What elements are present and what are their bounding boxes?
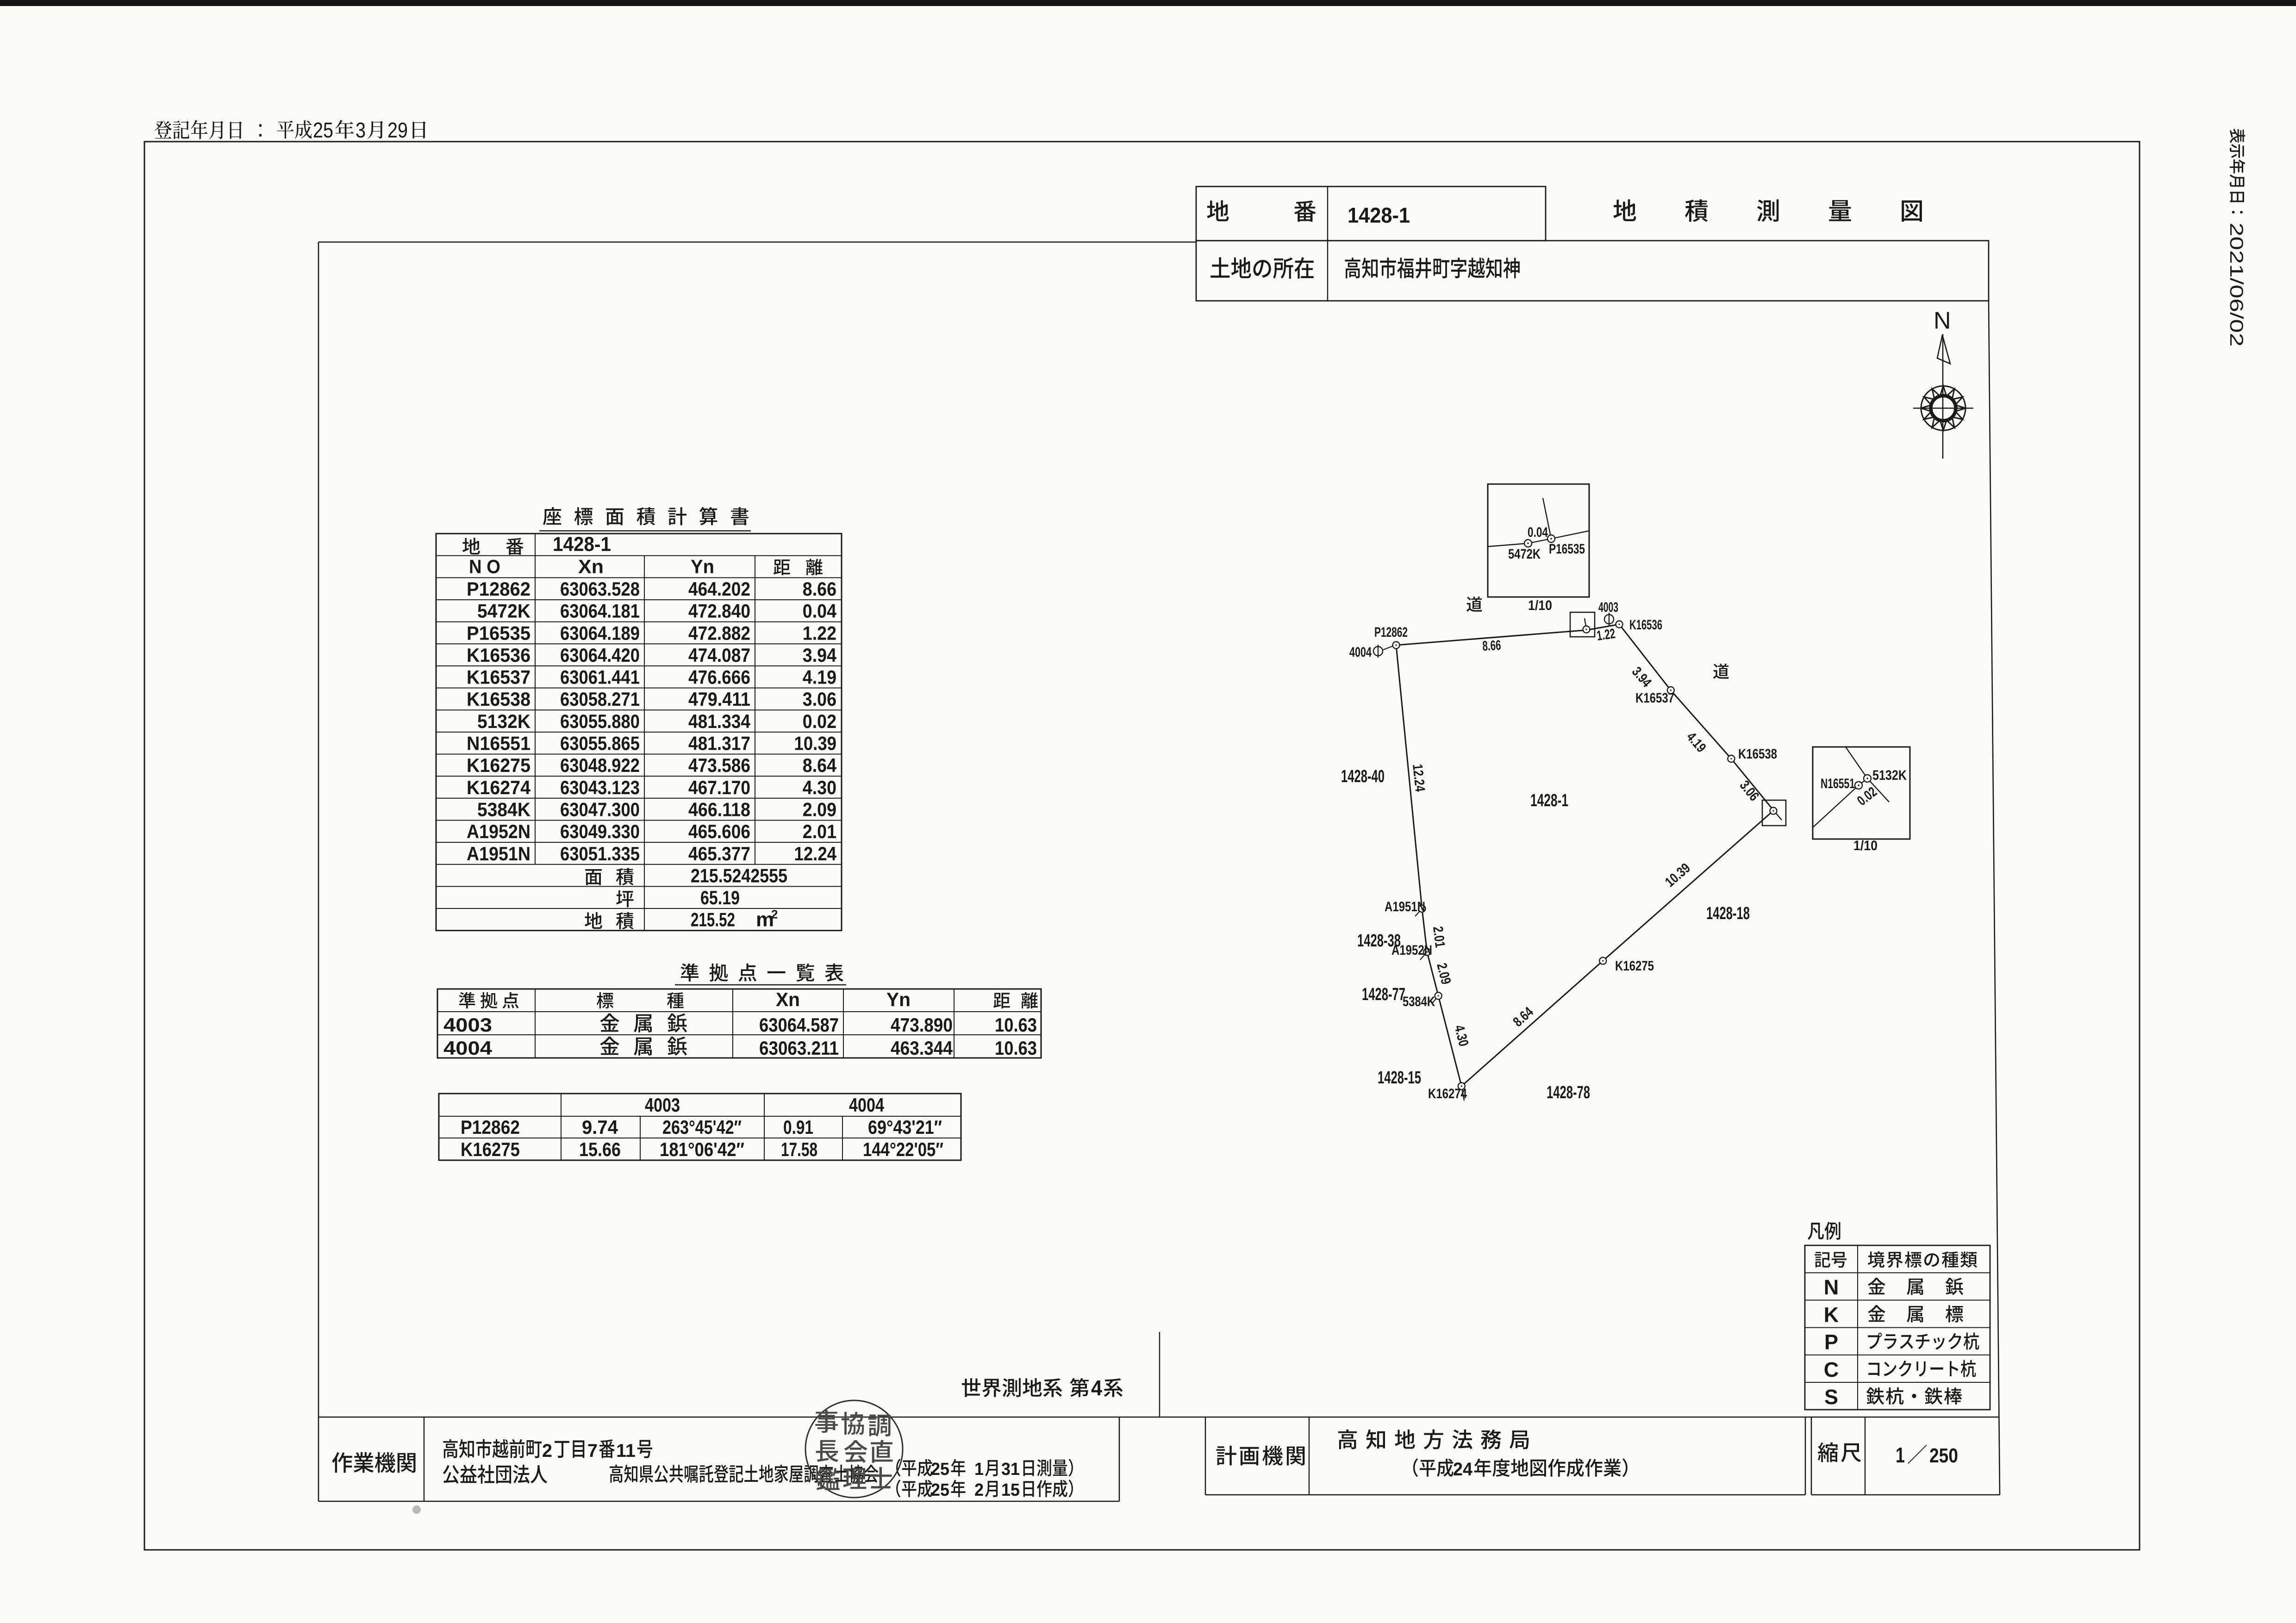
svg-text:1428-18: 1428-18 xyxy=(1706,904,1750,923)
svg-text:8.64: 8.64 xyxy=(803,754,837,776)
高知地方法務局 xyxy=(1338,1430,1529,1449)
svg-text:P12862: P12862 xyxy=(467,578,530,600)
label 縮尺 xyxy=(1818,1443,1861,1462)
svg-text:1428-1: 1428-1 xyxy=(1530,791,1568,810)
svg-text:Xn: Xn xyxy=(578,555,604,577)
svg-text:K16274: K16274 xyxy=(1428,1086,1467,1101)
svg-text:63063.211: 63063.211 xyxy=(759,1037,839,1059)
parcel 1428-1 boundary polygon xyxy=(1396,624,1774,1086)
table1 footer 坪 xyxy=(616,890,633,908)
table1 row 地番 1428-1 xyxy=(462,538,480,554)
svg-text:2.01: 2.01 xyxy=(803,821,836,842)
stamp circle xyxy=(805,1400,903,1498)
detail inset 2 (N16551 / 5132K) xyxy=(1813,747,1910,839)
main title 地積測量図 xyxy=(1613,199,1922,222)
svg-text:1428-15: 1428-15 xyxy=(1378,1068,1421,1088)
legend table xyxy=(1805,1245,1990,1410)
svg-text:N16551: N16551 xyxy=(1821,776,1855,791)
tick at 5384K xyxy=(1432,996,1438,1004)
marker square around 5472K/P16535 xyxy=(1570,612,1595,637)
svg-text:4003: 4003 xyxy=(1598,600,1618,615)
svg-text:250: 250 xyxy=(1929,1444,1958,1467)
svg-text:P: P xyxy=(1824,1331,1838,1354)
bottom-right box 計画機関 xyxy=(1205,1417,1206,1495)
compass rose inner ring xyxy=(1931,396,1956,421)
table1 footer 地積 xyxy=(585,912,602,929)
svg-text:S: S xyxy=(1824,1385,1838,1409)
svg-text:1428-1: 1428-1 xyxy=(553,533,611,556)
svg-text:1/10: 1/10 xyxy=(1528,598,1552,613)
tick at cluster square 1 xyxy=(1585,618,1586,629)
table2 headers xyxy=(459,992,518,1008)
svg-text:7: 7 xyxy=(587,1441,598,1461)
header registration date label 登記年月日 xyxy=(155,120,242,139)
svg-text:474.087: 474.087 xyxy=(688,644,750,666)
svg-text:464.202: 464.202 xyxy=(688,578,750,600)
svg-text:4004: 4004 xyxy=(1349,645,1372,660)
bottom-left box 作業機関 xyxy=(318,1417,319,1501)
svg-text:15: 15 xyxy=(1001,1480,1020,1500)
svg-text:63047.300: 63047.300 xyxy=(560,798,640,820)
svg-text:N: N xyxy=(1934,307,1951,334)
svg-text:K16275: K16275 xyxy=(467,754,530,776)
svg-text:12.24: 12.24 xyxy=(1410,763,1428,792)
stamp kanji 直 xyxy=(871,1440,892,1463)
label 作業機関 xyxy=(332,1452,415,1473)
svg-text:15.66: 15.66 xyxy=(579,1138,621,1160)
svg-text:3.06: 3.06 xyxy=(803,688,836,710)
svg-text:63064.587: 63064.587 xyxy=(759,1014,839,1036)
stamp kanji 調 xyxy=(868,1415,891,1437)
svg-text:3: 3 xyxy=(356,118,366,142)
svg-text:C: C xyxy=(1824,1358,1839,1381)
outer page border xyxy=(144,142,2140,1550)
title block 所在 row xyxy=(1196,241,1989,301)
label 番 xyxy=(1294,200,1316,222)
svg-text:9.74: 9.74 xyxy=(582,1116,618,1138)
address line1 xyxy=(443,1439,542,1458)
（平成24年度地図作成作業） xyxy=(1413,1458,1454,1477)
svg-text:473.586: 473.586 xyxy=(688,754,750,776)
road label 道 right xyxy=(1713,664,1729,679)
compass rose 12-point star xyxy=(1921,386,1965,430)
svg-text:0.91: 0.91 xyxy=(783,1116,813,1138)
svg-text:2.01: 2.01 xyxy=(1430,926,1447,949)
svg-text:63049.330: 63049.330 xyxy=(560,821,640,842)
svg-text:4.30: 4.30 xyxy=(803,777,836,798)
svg-text:4004: 4004 xyxy=(443,1037,493,1059)
svg-text:63064.181: 63064.181 xyxy=(560,600,640,622)
boundary point circles xyxy=(1393,642,1400,649)
svg-text:5384K: 5384K xyxy=(1403,994,1435,1009)
svg-text:25: 25 xyxy=(931,1460,949,1479)
svg-text:K16536: K16536 xyxy=(467,644,530,666)
vertical date right margin 表示年月日：2021/06/02 xyxy=(2226,129,2246,347)
svg-text:K16275: K16275 xyxy=(461,1138,520,1160)
svg-text:2021/06/02: 2021/06/02 xyxy=(2226,223,2246,347)
svg-text:69°43'21″: 69°43'21″ xyxy=(868,1116,942,1138)
svg-text:63063.528: 63063.528 xyxy=(560,578,640,600)
svg-text:463.344: 463.344 xyxy=(891,1037,953,1059)
svg-text:5132K: 5132K xyxy=(477,710,530,732)
svg-text:P16535: P16535 xyxy=(1549,541,1585,557)
reference station 4004 symbol xyxy=(1373,647,1383,656)
svg-text:5472K: 5472K xyxy=(477,600,530,622)
svg-text:8.66: 8.66 xyxy=(1482,638,1502,654)
svg-text:P16535: P16535 xyxy=(467,622,530,644)
faint dot artifact xyxy=(412,1505,421,1514)
svg-text:476.666: 476.666 xyxy=(688,666,750,688)
svg-text:25: 25 xyxy=(313,118,333,142)
svg-text:1428-40: 1428-40 xyxy=(1341,767,1385,786)
svg-text:466.118: 466.118 xyxy=(688,798,750,820)
svg-text:K16536: K16536 xyxy=(1629,617,1662,633)
stamp kanji 士 xyxy=(870,1467,892,1488)
svg-text:10.39: 10.39 xyxy=(794,733,837,754)
stamp kanji 理 xyxy=(843,1468,867,1489)
svg-text:63048.922: 63048.922 xyxy=(560,754,640,776)
svg-text:2: 2 xyxy=(974,1480,984,1500)
title block 地番 row xyxy=(1196,187,1546,241)
svg-text:465.377: 465.377 xyxy=(688,843,750,864)
location value 高知市福井町字越知神 xyxy=(1345,258,1519,279)
table3 angle/distance table grid xyxy=(439,1094,961,1160)
svg-text:467.170: 467.170 xyxy=(688,777,750,798)
svg-text:2: 2 xyxy=(771,908,778,921)
svg-text:K16538: K16538 xyxy=(1738,746,1777,762)
svg-text:12.24: 12.24 xyxy=(794,843,837,864)
table1 coordinate area table grid xyxy=(436,534,842,931)
svg-text:63064.420: 63064.420 xyxy=(560,644,640,666)
tick at A1952N xyxy=(1420,952,1427,960)
svg-text:10.63: 10.63 xyxy=(995,1037,1037,1059)
svg-text:11: 11 xyxy=(616,1441,636,1461)
north arrow shaft xyxy=(1942,334,1944,459)
legend title 凡例 xyxy=(1808,1222,1840,1240)
svg-text:31: 31 xyxy=(1001,1460,1020,1479)
svg-text:K16537: K16537 xyxy=(1635,690,1674,706)
svg-text:8.66: 8.66 xyxy=(803,578,836,600)
cluster point in square 1 xyxy=(1583,626,1590,633)
marker square around 5132K/N16551 xyxy=(1762,800,1786,826)
stamp kanji 鑑 xyxy=(816,1468,840,1490)
世界測地系 第4系 xyxy=(962,1378,1062,1397)
svg-text:2.09: 2.09 xyxy=(803,798,836,820)
tick at cluster square 2 xyxy=(1774,810,1782,820)
svg-text:63058.271: 63058.271 xyxy=(560,688,640,710)
survey date line2 xyxy=(896,1480,932,1497)
svg-text:1428-1: 1428-1 xyxy=(1348,203,1410,227)
svg-text:4004: 4004 xyxy=(849,1094,885,1116)
svg-text:Yn: Yn xyxy=(886,989,911,1010)
inner drawing frame xyxy=(318,242,1196,243)
svg-text:A1952N: A1952N xyxy=(467,821,530,842)
tick at K16274 xyxy=(1461,1086,1464,1101)
svg-text:481.317: 481.317 xyxy=(688,733,750,754)
svg-text:481.334: 481.334 xyxy=(688,710,751,732)
legend header 記号 xyxy=(1815,1252,1847,1268)
svg-text:0.04: 0.04 xyxy=(803,600,837,622)
survey date line1 xyxy=(896,1459,932,1476)
label 計画機関 xyxy=(1217,1446,1305,1466)
svg-text:63064.189: 63064.189 xyxy=(560,622,640,644)
svg-text:181°06'42″: 181°06'42″ xyxy=(660,1138,744,1160)
table1 title 座標面積計算書 xyxy=(543,507,749,525)
svg-text:Yn: Yn xyxy=(691,555,714,577)
svg-text:5472K: 5472K xyxy=(1508,547,1541,562)
svg-text:N O: N O xyxy=(469,555,500,577)
svg-text:1/10: 1/10 xyxy=(1853,838,1878,853)
svg-text:63061.441: 63061.441 xyxy=(560,666,640,688)
compass horizontal axis xyxy=(1913,408,1973,409)
organization name xyxy=(610,1465,878,1483)
svg-text:1: 1 xyxy=(1896,1443,1905,1467)
north arrow pennant xyxy=(1937,335,1950,364)
stamp kanji 事 xyxy=(815,1410,837,1433)
svg-text:144°22'05″: 144°22'05″ xyxy=(863,1138,943,1160)
svg-text:2: 2 xyxy=(542,1441,552,1461)
svg-text:215.5242555: 215.5242555 xyxy=(691,864,787,886)
svg-text:465.606: 465.606 xyxy=(688,821,750,842)
svg-text:3.94: 3.94 xyxy=(803,644,837,666)
svg-text:Xn: Xn xyxy=(776,989,800,1010)
svg-text:479.411: 479.411 xyxy=(688,688,750,710)
svg-text:P12862: P12862 xyxy=(1374,625,1408,640)
svg-text:24: 24 xyxy=(1453,1459,1473,1480)
table2 reference point table grid xyxy=(437,989,1041,1058)
stamp kanji 協 xyxy=(842,1412,864,1435)
svg-text:215.52: 215.52 xyxy=(691,909,735,931)
svg-text:63051.335: 63051.335 xyxy=(560,843,640,864)
svg-text:1428-77: 1428-77 xyxy=(1362,985,1405,1004)
road label 道 left xyxy=(1466,597,1482,612)
svg-text:N: N xyxy=(1824,1275,1839,1299)
detail inset 1 (5472K / P16535) xyxy=(1488,484,1589,597)
svg-text:65.19: 65.19 xyxy=(700,887,740,908)
svg-text:1.22: 1.22 xyxy=(803,622,836,644)
svg-text:4003: 4003 xyxy=(443,1014,492,1036)
svg-text:4.19: 4.19 xyxy=(803,666,836,688)
svg-text:0.04: 0.04 xyxy=(1528,525,1548,540)
scanner black strip top edge xyxy=(0,0,2296,6)
svg-text:4: 4 xyxy=(1091,1376,1102,1400)
svg-text:10.63: 10.63 xyxy=(995,1014,1037,1036)
svg-text:5132K: 5132K xyxy=(1872,768,1907,783)
svg-text:K16275: K16275 xyxy=(1615,958,1654,974)
svg-text:63043.123: 63043.123 xyxy=(560,777,640,798)
svg-text:K16537: K16537 xyxy=(467,666,530,688)
separator tick above band xyxy=(1159,1332,1160,1417)
svg-text:A1951N: A1951N xyxy=(1385,899,1425,914)
cluster point in square 2 xyxy=(1770,808,1777,815)
縮尺 box xyxy=(1811,1417,1812,1495)
reference station 4003 symbol xyxy=(1604,615,1614,624)
svg-text:K: K xyxy=(1824,1303,1839,1326)
header date 平成25年3月29日 xyxy=(277,120,312,139)
stamp kanji 会 xyxy=(844,1440,867,1463)
svg-text:63055.865: 63055.865 xyxy=(560,733,640,754)
svg-text:17.58: 17.58 xyxy=(781,1138,817,1160)
address line2 公益社団法人 xyxy=(443,1465,547,1484)
table1 footer 面積 xyxy=(585,869,602,885)
label 土地の所在 xyxy=(1210,257,1314,279)
legend header 境界標の種類 xyxy=(1868,1251,1977,1268)
svg-text:1: 1 xyxy=(974,1460,984,1479)
svg-text:1428-78: 1428-78 xyxy=(1547,1083,1590,1102)
svg-text:63055.880: 63055.880 xyxy=(560,710,640,732)
svg-text:0.02: 0.02 xyxy=(803,710,836,732)
compass rose outer circle xyxy=(1921,386,1965,430)
stamp kanji 長 xyxy=(816,1440,839,1462)
svg-text:1.22: 1.22 xyxy=(1596,626,1616,644)
svg-text:5384K: 5384K xyxy=(477,798,530,820)
svg-text:1428-38: 1428-38 xyxy=(1357,931,1401,951)
svg-text:A1951N: A1951N xyxy=(467,843,530,864)
tick at A1951N xyxy=(1415,908,1422,916)
svg-text:4003: 4003 xyxy=(645,1094,680,1116)
svg-text:25: 25 xyxy=(931,1480,949,1500)
svg-text:473.890: 473.890 xyxy=(891,1014,953,1036)
svg-text:472.840: 472.840 xyxy=(688,600,750,622)
svg-text:472.882: 472.882 xyxy=(688,622,750,644)
svg-text:N16551: N16551 xyxy=(467,733,530,754)
svg-text:29: 29 xyxy=(387,118,408,142)
svg-text:K16274: K16274 xyxy=(467,777,531,798)
svg-text:K16538: K16538 xyxy=(467,688,530,710)
svg-text:263°45'42″: 263°45'42″ xyxy=(662,1116,742,1138)
label 地 xyxy=(1207,200,1229,221)
table2 title 準拠点一覧表 xyxy=(680,964,843,982)
svg-text:P12862: P12862 xyxy=(461,1116,520,1138)
